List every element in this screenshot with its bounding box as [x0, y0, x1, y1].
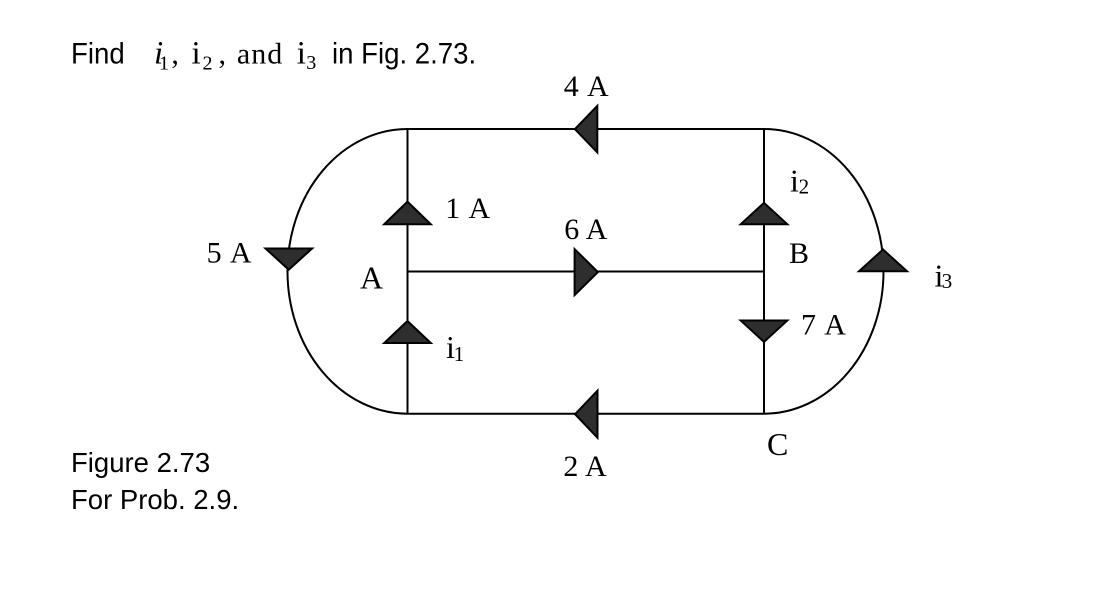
svg-text:2: 2 [203, 53, 213, 75]
svg-text:2 A: 2 A [563, 450, 607, 483]
svg-text:1 A: 1 A [445, 192, 491, 225]
svg-text:5 A: 5 A [207, 237, 253, 270]
svg-text:i: i [297, 35, 306, 71]
svg-text:and: and [237, 37, 283, 70]
svg-text:7 A: 7 A [801, 308, 847, 341]
svg-text:i: i [192, 35, 201, 71]
svg-text:3: 3 [942, 269, 953, 293]
svg-text:For Prob. 2.9.: For Prob. 2.9. [71, 484, 239, 515]
svg-text:C: C [767, 426, 788, 462]
svg-text:1: 1 [159, 52, 169, 74]
svg-text:3: 3 [306, 52, 316, 74]
svg-text:A: A [360, 260, 383, 296]
svg-text:Find: Find [71, 37, 125, 70]
svg-text:4 A: 4 A [564, 70, 610, 103]
svg-text:in Fig. 2.73.: in Fig. 2.73. [332, 37, 476, 70]
svg-text:2: 2 [799, 174, 810, 198]
svg-text:,: , [171, 37, 179, 70]
svg-text:6 A: 6 A [564, 213, 607, 246]
svg-text:1: 1 [454, 342, 465, 366]
svg-text:,: , [219, 37, 227, 70]
svg-text:Figure 2.73: Figure 2.73 [71, 447, 210, 478]
svg-text:B: B [789, 237, 809, 270]
